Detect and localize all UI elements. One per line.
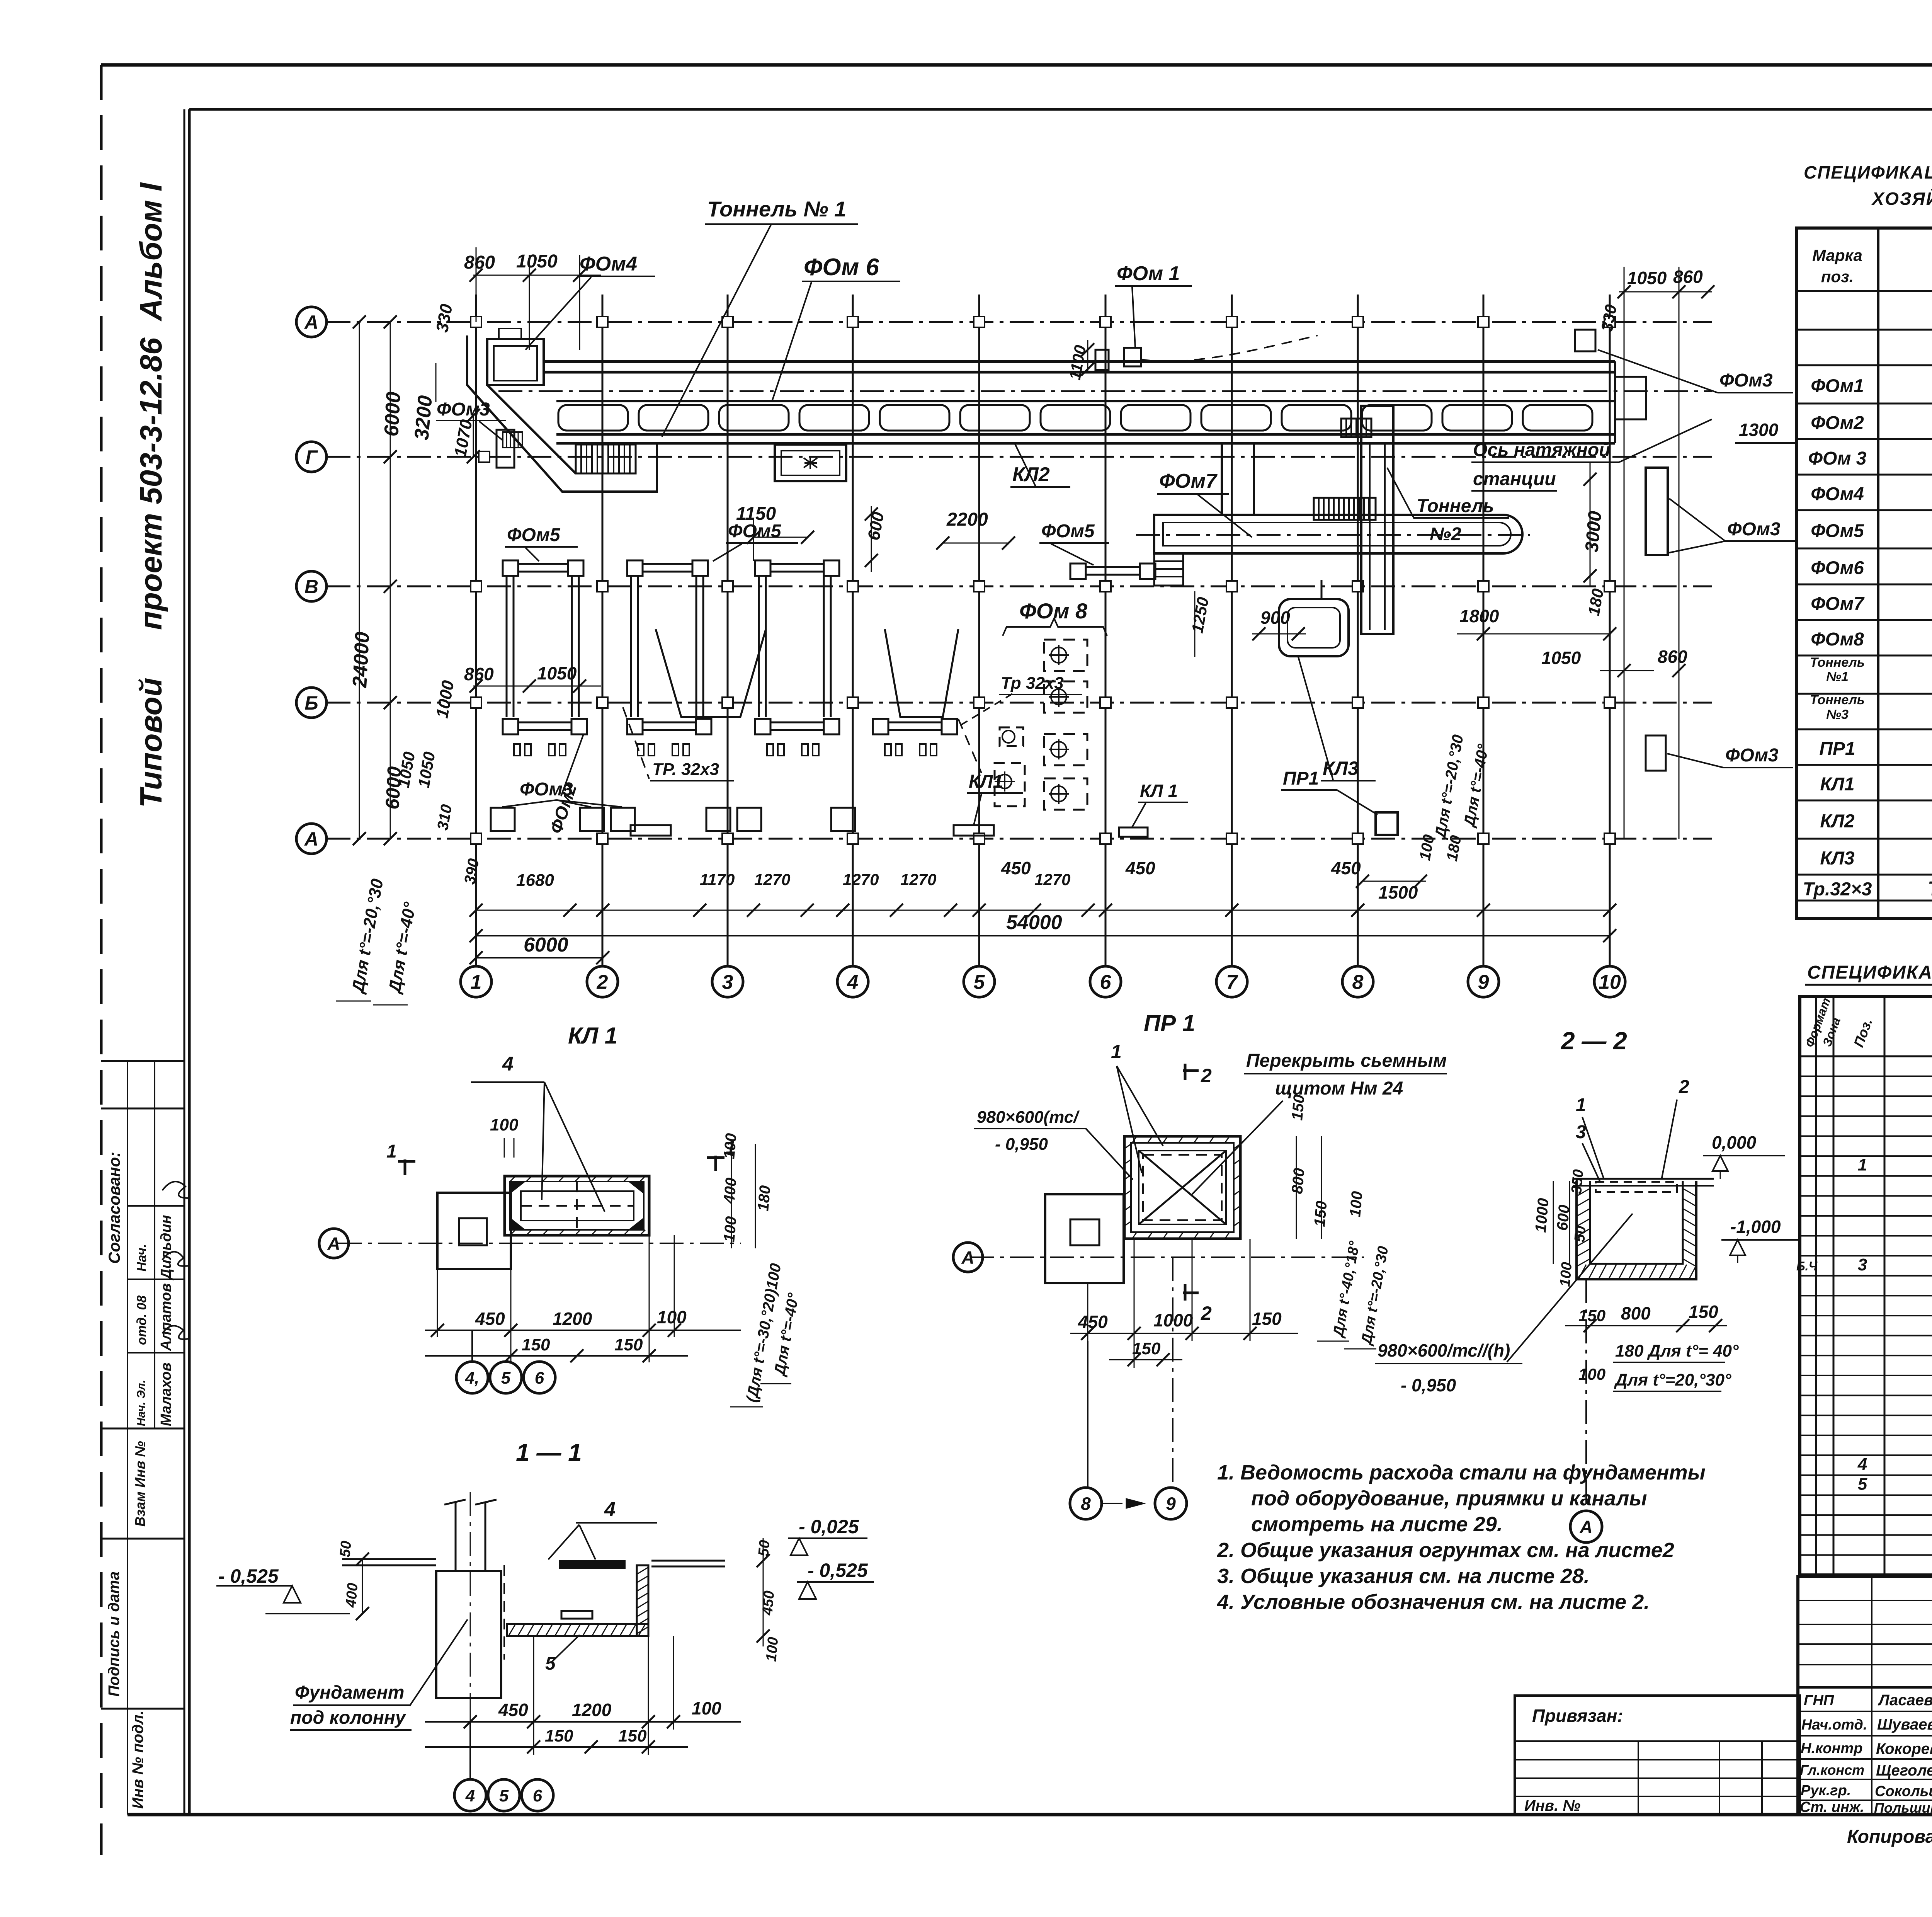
- svg-text:ФОм3: ФОм3: [1725, 745, 1779, 766]
- svg-text:8: 8: [1081, 1494, 1091, 1514]
- bottom dim chain: [476, 910, 1610, 911]
- 2-2 bottom dims: [1565, 1325, 1727, 1326]
- foundation ФОм4 block: [487, 339, 544, 385]
- 1-1 dashed edge: [503, 1565, 505, 1660]
- svg-text:1270: 1270: [843, 870, 879, 889]
- svg-text:Гл.конст: Гл.конст: [1800, 1762, 1864, 1778]
- svg-text:ТУ МПХ 4251-51: ТУ МПХ 4251-51: [1928, 878, 1932, 900]
- svg-text:ФОм7: ФОм7: [1811, 594, 1865, 614]
- svg-text:1000: 1000: [1532, 1197, 1552, 1233]
- svg-text:2200: 2200: [946, 509, 988, 530]
- svg-text:100: 100: [1578, 1365, 1605, 1383]
- foundation ФОм1 small rects: [1095, 350, 1109, 370]
- svg-text:4: 4: [847, 971, 859, 994]
- foundation ФОм3 right tall: [1646, 468, 1668, 555]
- table 2 row lines: [1800, 1076, 1932, 1077]
- svg-text:860: 860: [464, 252, 495, 273]
- svg-text:3. Общие указания см. на: 3. Общие указания см. на листе 28.: [1217, 1565, 1590, 1588]
- svg-text:Нач. Эл.: Нач. Эл.: [135, 1380, 148, 1426]
- 1-1 foundation under column: [436, 1571, 501, 1698]
- svg-text:ФОм 6: ФОм 6: [804, 254, 879, 281]
- svg-text:Для t°=20,°30°: Для t°=20,°30°: [1614, 1371, 1731, 1389]
- 1-1 channel bottom slab: [507, 1624, 648, 1636]
- svg-text:ФОм3: ФОм3: [1719, 370, 1773, 391]
- svg-text:- 0,950: - 0,950: [995, 1135, 1048, 1154]
- svg-text:ПР1: ПР1: [1283, 768, 1319, 789]
- svg-text:Нач.: Нач.: [134, 1244, 149, 1272]
- svg-text:1: 1: [1576, 1095, 1586, 1115]
- svg-text:450: 450: [1125, 858, 1155, 878]
- column axis circles 1-10: [461, 966, 492, 997]
- svg-text:Типовой: Типовой: [134, 678, 168, 808]
- table 1 row lines: [1796, 329, 1932, 331]
- svg-text:- 0,525: - 0,525: [218, 1565, 279, 1587]
- stamp rows for names: [128, 1205, 184, 1207]
- svg-text:КЛ 1: КЛ 1: [1140, 781, 1178, 801]
- svg-text:Тр.32×3: Тр.32×3: [1803, 879, 1872, 900]
- foundation group row Б no.3: [755, 719, 770, 734]
- svg-text:ФОм8: ФОм8: [1811, 629, 1864, 650]
- svg-text:4: 4: [502, 1053, 514, 1075]
- svg-text:КЛ3: КЛ3: [1820, 848, 1854, 869]
- svg-text:54000: 54000: [1006, 911, 1062, 934]
- dim 6000 bay line: [476, 957, 603, 958]
- svg-text:450: 450: [498, 1700, 528, 1720]
- svg-text:4: 4: [465, 1786, 475, 1805]
- svg-text:50: 50: [755, 1539, 773, 1557]
- svg-text:Привязан:: Привязан:: [1532, 1706, 1623, 1726]
- tunnel end wall right: [1614, 361, 1616, 443]
- svg-text:3000: 3000: [1582, 510, 1605, 553]
- svg-text:860: 860: [1673, 267, 1703, 287]
- svg-text:Алпатов: Алпатов: [158, 1283, 174, 1351]
- ПР1 bottom dims: [1070, 1333, 1298, 1334]
- svg-text:Ось натяжной: Ось натяжной: [1473, 440, 1610, 460]
- table 2 column lines: [1815, 996, 1817, 1575]
- svg-text:150: 150: [1252, 1309, 1282, 1329]
- svg-text:ФОм5: ФОм5: [507, 525, 561, 545]
- svg-text:860: 860: [1658, 647, 1687, 667]
- КЛ1 corner wedges: [510, 1182, 525, 1193]
- svg-text:-1,000: -1,000: [1730, 1217, 1781, 1237]
- ПР1 right dims: [1296, 1136, 1297, 1239]
- svg-text:Тоннель: Тоннель: [1810, 655, 1865, 670]
- horizontal axis lines А Г В Б А: [327, 321, 1712, 323]
- svg-text:450: 450: [475, 1309, 505, 1329]
- svg-text:- 0,525: - 0,525: [808, 1559, 868, 1581]
- foundation ФОм3 bottom row rects: [491, 808, 515, 831]
- svg-text:поз.: поз.: [1821, 267, 1854, 286]
- svg-text:отд. 08: отд. 08: [134, 1296, 149, 1345]
- svg-text:А: А: [961, 1248, 974, 1268]
- svg-text:ФОм 8: ФОм 8: [1019, 599, 1088, 623]
- svg-text:Тоннель: Тоннель: [1810, 693, 1865, 707]
- svg-text:100: 100: [692, 1698, 721, 1718]
- svg-text:ХОЗЯЙСТВА И ФУНДАМЕНТОВ П: ХОЗЯЙСТВА И ФУНДАМЕНТОВ ПОД ОБОРУДОВАНИЕ: [1871, 189, 1932, 209]
- svg-text:450: 450: [1331, 858, 1361, 878]
- svg-text:1: 1: [1858, 1156, 1867, 1175]
- svg-text:6: 6: [1100, 971, 1112, 994]
- svg-text:ФОм3: ФОм3: [437, 399, 490, 420]
- svg-text:980×600(тс/: 980×600(тс/: [977, 1108, 1080, 1127]
- ФОм8 small dashed squares left: [1000, 727, 1023, 746]
- svg-text:24000: 24000: [349, 631, 374, 689]
- channel КЛ1 bar no.2: [954, 825, 994, 836]
- 1-1 axis circles 4 5 6: [469, 1722, 471, 1780]
- sheet left outer border: [100, 65, 103, 1855]
- svg-text:ФОм4: ФОм4: [580, 253, 637, 275]
- svg-text:Малахов: Малахов: [158, 1362, 174, 1426]
- КЛ1 channel plan: [505, 1176, 649, 1235]
- svg-text:450: 450: [759, 1590, 777, 1616]
- svg-text:2: 2: [1201, 1065, 1212, 1086]
- ПР1 pit diagonals: [1139, 1151, 1226, 1224]
- table 1 header row line: [1796, 290, 1932, 292]
- svg-text:6: 6: [535, 1369, 544, 1388]
- svg-text:6: 6: [533, 1786, 543, 1805]
- svg-text:5: 5: [499, 1786, 509, 1805]
- svg-text:3200: 3200: [410, 395, 437, 441]
- svg-text:Инв № подл.: Инв № подл.: [129, 1710, 146, 1809]
- svg-text:ФОм3: ФОм3: [1727, 519, 1781, 540]
- svg-text:КЛ1: КЛ1: [1820, 774, 1854, 795]
- svg-text:1050: 1050: [516, 251, 558, 272]
- table 2 header line: [1800, 1056, 1932, 1057]
- svg-text:КЛ 1: КЛ 1: [568, 1023, 617, 1049]
- svg-text:КЛ1: КЛ1: [969, 771, 1003, 792]
- foundation ФОм8 dashed squares: [1044, 640, 1087, 671]
- svg-text:ФОм5: ФОм5: [1041, 521, 1095, 541]
- svg-text:100: 100: [1557, 1262, 1575, 1287]
- svg-text:Шуваев: Шуваев: [1877, 1716, 1932, 1733]
- duct trapezoid no.2: [885, 629, 958, 717]
- svg-text:5: 5: [501, 1369, 511, 1388]
- svg-text:Согласовано:: Согласовано:: [105, 1152, 123, 1264]
- svg-text:6000: 6000: [380, 391, 405, 437]
- svg-text:1. Ведомость расхода стали н: 1. Ведомость расхода стали на фундаменты: [1217, 1461, 1706, 1484]
- svg-text:1270: 1270: [900, 870, 936, 889]
- svg-text:Фундамент: Фундамент: [295, 1682, 404, 1703]
- svg-text:Копировал:: Копировал:: [1847, 1827, 1932, 1847]
- 1-1 floor slab left: [342, 1558, 436, 1560]
- svg-text:Б.Ч: Б.Ч: [1796, 1259, 1818, 1273]
- КЛ1 axis А: [338, 1243, 741, 1244]
- svg-text:5: 5: [1858, 1475, 1867, 1494]
- svg-text:0,000: 0,000: [1712, 1132, 1757, 1153]
- tunnel entrance outer wall: [467, 335, 657, 492]
- stamp signatures: [162, 1182, 189, 1198]
- svg-text:ФОм7: ФОм7: [1159, 470, 1218, 492]
- svg-text:А: А: [304, 312, 318, 333]
- svg-text:СПЕЦИФИКАЦИЯ К СХЕМЕ РАСПО: СПЕЦИФИКАЦИЯ К СХЕМЕ РАСПОЛОЖЕНИЯ ЭЛЕМЕН…: [1804, 162, 1932, 182]
- svg-text:100: 100: [490, 1115, 519, 1134]
- svg-text:900: 900: [1260, 608, 1290, 628]
- svg-text:6000: 6000: [524, 934, 568, 956]
- svg-text:Б: Б: [304, 692, 318, 714]
- svg-text:Инв. №: Инв. №: [1524, 1797, 1580, 1814]
- 2-2 section walls: [1577, 1181, 1696, 1279]
- legs from row В groups: [506, 576, 508, 717]
- 2-2 cover slab: [1573, 1178, 1714, 1180]
- КЛ1 column foundation: [437, 1193, 511, 1269]
- tunnel end block: [1615, 377, 1646, 419]
- svg-text:7: 7: [1226, 971, 1238, 994]
- svg-text:4,: 4,: [465, 1369, 480, 1388]
- svg-text:ФОм 3: ФОм 3: [1808, 448, 1867, 469]
- svg-text:ТР. 32х3: ТР. 32х3: [652, 760, 719, 779]
- svg-text:1200: 1200: [553, 1309, 592, 1329]
- svg-text:под оборудование, приямки и: под оборудование, приямки и каналы: [1251, 1487, 1647, 1510]
- svg-text:1 — 1: 1 — 1: [516, 1439, 582, 1466]
- 1-1 column: [455, 1502, 457, 1571]
- svg-text:1680: 1680: [516, 871, 554, 890]
- 1-1 cover plate 4: [560, 1561, 625, 1568]
- svg-text:9: 9: [1478, 971, 1489, 994]
- 1-1 channel right wall: [637, 1565, 648, 1636]
- svg-text:4: 4: [1857, 1455, 1867, 1474]
- svg-text:Подпись и дата: Подпись и дата: [105, 1571, 122, 1697]
- svg-text:Тр 32х3: Тр 32х3: [1001, 674, 1064, 693]
- tunnel entrance inner wall: [487, 385, 576, 473]
- svg-text:ФОм5: ФОм5: [1811, 521, 1864, 541]
- svg-text:1170: 1170: [700, 870, 735, 889]
- right dim extension lines: [1624, 267, 1625, 839]
- title block upper rows: [1798, 1600, 1932, 1601]
- svg-text:800: 800: [1621, 1303, 1651, 1323]
- channel КЛ1 bar no.1: [631, 825, 671, 836]
- 2-2 left dims: [1553, 1181, 1554, 1264]
- svg-text:1150: 1150: [736, 504, 776, 524]
- svg-text:А: А: [1579, 1517, 1592, 1537]
- svg-text:1: 1: [386, 1141, 397, 1162]
- svg-text:400: 400: [343, 1582, 361, 1609]
- foundation ФОм5 group row В no.2: [627, 560, 643, 576]
- svg-text:450: 450: [1001, 858, 1031, 878]
- foundation ФОм3 right top: [1575, 330, 1595, 351]
- title block frame: [1798, 1577, 1932, 1815]
- svg-text:1270: 1270: [754, 870, 790, 889]
- svg-text:- 0,950: - 0,950: [1401, 1375, 1456, 1395]
- tunnel slot band top: [556, 400, 1615, 402]
- frame left border: [188, 109, 191, 1815]
- svg-text:980×600/тс//(h): 980×600/тс//(h): [1378, 1340, 1510, 1360]
- svg-text:5: 5: [545, 1653, 556, 1674]
- svg-text:1300: 1300: [1739, 420, 1779, 440]
- svg-text:150: 150: [545, 1726, 573, 1745]
- svg-text:КЛ2: КЛ2: [1820, 811, 1854, 832]
- ФОм8 label brace: [1003, 618, 1107, 636]
- КЛ3 stub: [1321, 580, 1323, 599]
- svg-text:10: 10: [1599, 971, 1621, 994]
- ПР1 axis circles 8 9: [1087, 1341, 1088, 1487]
- table 1 column lines: [1877, 228, 1879, 918]
- svg-text:Щеголев: Щеголев: [1876, 1762, 1932, 1779]
- title block left grid verticals: [1871, 1577, 1872, 1815]
- svg-text:- 0,025: - 0,025: [799, 1516, 859, 1537]
- svg-text:Тоннель № 1: Тоннель № 1: [707, 197, 846, 221]
- КЛ1 dim chain: [425, 1330, 741, 1331]
- frame bottom border: [128, 1813, 1932, 1817]
- 2-2 axis circle А: [1585, 1279, 1587, 1510]
- channel КЛ3 body: [1279, 599, 1349, 656]
- svg-text:ФОм6: ФОм6: [1811, 558, 1864, 579]
- svg-text:150: 150: [618, 1726, 647, 1745]
- svg-text:ПР 1: ПР 1: [1144, 1010, 1195, 1036]
- entrance stairs: [576, 444, 636, 473]
- svg-text:А: А: [327, 1234, 340, 1254]
- svg-text:3: 3: [1858, 1255, 1867, 1274]
- tunnel N2 vertical duct: [1361, 406, 1393, 634]
- channel КЛ1 bar no.3: [1119, 827, 1148, 837]
- svg-text:2 — 2: 2 — 2: [1561, 1027, 1627, 1055]
- tunnel axis line: [498, 390, 1712, 392]
- duct trapezoid no.1: [656, 629, 766, 717]
- svg-text:3: 3: [1576, 1122, 1586, 1142]
- table 1 frame: [1796, 228, 1932, 918]
- inspection box with mark: [775, 444, 846, 481]
- svg-text:150: 150: [1132, 1339, 1161, 1358]
- svg-text:150: 150: [614, 1335, 643, 1354]
- svg-text:800: 800: [1289, 1167, 1308, 1194]
- svg-text:2: 2: [1679, 1077, 1689, 1097]
- svg-text:№1: №1: [1826, 669, 1849, 684]
- svg-text:В: В: [304, 576, 318, 598]
- 2-2 wall hatch: [1577, 1188, 1590, 1196]
- tunnel slot band bottom: [556, 433, 1615, 436]
- svg-text:ГНП: ГНП: [1804, 1692, 1834, 1709]
- svg-text:Тоннель: Тоннель: [1417, 496, 1494, 516]
- ПР1 axis А: [970, 1256, 1364, 1258]
- frame top inner line: [189, 108, 1932, 111]
- svg-text:2. Общие указания огрунтах с: 2. Общие указания огрунтах см. на листе2: [1217, 1539, 1674, 1562]
- foundation ФОм3 right small: [1646, 735, 1666, 771]
- ФОм7 stairs zebra: [1314, 498, 1376, 520]
- svg-text:100: 100: [721, 1216, 740, 1243]
- anchor pairs below row Б: [514, 744, 520, 756]
- svg-text:100: 100: [763, 1636, 781, 1662]
- pipe Тр32х3 dashed diagonal: [623, 707, 649, 779]
- vertical duct to ФОм7: [1221, 443, 1223, 515]
- svg-text:100: 100: [1347, 1190, 1366, 1217]
- foundation ФОм5 group row В no.4: [1070, 564, 1086, 579]
- svg-text:Альбом I: Альбом I: [134, 182, 168, 322]
- svg-text:4. Условные обозначения см.: 4. Условные обозначения см. на листе 2.: [1217, 1590, 1650, 1614]
- svg-text:Перекрыть сьемным: Перекрыть сьемным: [1246, 1050, 1447, 1071]
- axis circles left: [296, 307, 327, 337]
- svg-text:400: 400: [721, 1177, 740, 1204]
- svg-text:Дильдин: Дильдин: [158, 1215, 174, 1280]
- svg-text:Кокорев: Кокорев: [1876, 1740, 1932, 1757]
- svg-text:1500: 1500: [1378, 882, 1418, 902]
- svg-text:под колонну: под колонну: [290, 1708, 406, 1728]
- svg-text:8: 8: [1352, 971, 1364, 994]
- svg-text:350: 350: [1568, 1169, 1587, 1195]
- svg-text:проект 503-3-12.86: проект 503-3-12.86: [134, 337, 168, 630]
- ФОм1 dashed tie line: [1141, 335, 1318, 361]
- svg-text:Марка: Марка: [1812, 246, 1862, 264]
- svg-text:150: 150: [522, 1335, 550, 1354]
- foundation ФОм5 group row В no.3: [755, 560, 770, 576]
- sheet top edge line: [101, 63, 1932, 67]
- svg-text:А: А: [304, 828, 318, 850]
- svg-text:150: 150: [1578, 1306, 1605, 1325]
- svg-text:600: 600: [1554, 1204, 1573, 1231]
- svg-text:Польшикова: Польшикова: [1874, 1800, 1932, 1816]
- svg-text:ПР1: ПР1: [1819, 739, 1855, 759]
- svg-text:100: 100: [657, 1307, 687, 1327]
- КЛ1 axis circles 4 5 6: [471, 1330, 473, 1362]
- tunnel N1 top walls: [543, 360, 1615, 363]
- svg-text:Рук.гр.: Рук.гр.: [1801, 1783, 1851, 1799]
- svg-text:Н.контр: Н.контр: [1801, 1740, 1862, 1757]
- svg-text:2: 2: [597, 971, 608, 994]
- table 2 frame: [1800, 996, 1932, 1575]
- pit ПР1 square in plan: [1376, 812, 1398, 835]
- svg-text:1050: 1050: [1627, 268, 1667, 288]
- svg-text:Сокольцов: Сокольцов: [1875, 1783, 1932, 1800]
- svg-text:100: 100: [721, 1132, 740, 1159]
- svg-text:3: 3: [722, 971, 733, 994]
- КЛ1 section marks 1-1: [404, 1159, 406, 1175]
- title block name rows: [1798, 1711, 1932, 1712]
- svg-text:1: 1: [1111, 1041, 1122, 1062]
- svg-text:860: 860: [464, 664, 494, 684]
- svg-text:Нач.отд.: Нач.отд.: [1801, 1717, 1867, 1733]
- svg-text:180: 180: [755, 1185, 774, 1212]
- 1-1 support plate 5: [561, 1611, 592, 1619]
- svg-text:5: 5: [974, 971, 985, 994]
- overall dim line 54000: [476, 935, 1610, 936]
- foundation group row Б no.4: [873, 719, 888, 734]
- svg-text:Взам Инв №: Взам Инв №: [132, 1441, 148, 1527]
- 1-1 column centerline: [470, 1492, 471, 1728]
- foundation group row Б no.1: [503, 719, 518, 734]
- left margin stamp column lines: [101, 1060, 184, 1062]
- svg-text:50: 50: [337, 1540, 355, 1558]
- svg-text:Г: Г: [306, 446, 318, 468]
- anchor stamp block Привязан: [1515, 1696, 1800, 1815]
- axis node squares: [471, 317, 481, 327]
- ПР1 column foundation: [1045, 1194, 1124, 1283]
- ПР1 section marks 2: [1183, 1069, 1199, 1072]
- КЛ1 wall hatch: [510, 1176, 515, 1182]
- 1-1 dim chain: [425, 1721, 741, 1723]
- ФОм7 axis: [1136, 534, 1530, 536]
- svg-text:Ласаев: Ласаев: [1878, 1692, 1932, 1709]
- svg-text:ФОм 1: ФОм 1: [1117, 262, 1180, 285]
- svg-text:50: 50: [1571, 1225, 1589, 1243]
- foundation ФОм5 group row В no.1: [503, 560, 518, 576]
- svg-text:КЛ2: КЛ2: [1012, 463, 1050, 486]
- foundation ФОм3 left rect: [497, 430, 514, 468]
- 1-1 slab right: [651, 1560, 725, 1562]
- svg-text:9: 9: [1166, 1494, 1176, 1514]
- svg-text:ФОм1: ФОм1: [1811, 376, 1864, 397]
- svg-text:150: 150: [1689, 1302, 1718, 1322]
- svg-text:станции: станции: [1473, 469, 1556, 489]
- svg-text:ФОм4: ФОм4: [1811, 484, 1864, 504]
- svg-text:№3: №3: [1826, 707, 1849, 722]
- foundation ФОм7 long bar: [1154, 515, 1522, 553]
- foundation group row Б no.2: [627, 719, 643, 734]
- svg-text:СПЕЦИФИКАЦИЯ ЭЛЕМЕНТОВ НА: СПЕЦИФИКАЦИЯ ЭЛЕМЕНТОВ НА КЛ1 И ПР1.: [1807, 962, 1932, 983]
- ФОм7 left ladder: [1154, 553, 1183, 586]
- ПР1 wall hatch: [1132, 1136, 1137, 1143]
- svg-text:4: 4: [604, 1498, 616, 1521]
- upper small ladder: [503, 432, 522, 448]
- svg-text:150: 150: [1311, 1200, 1330, 1227]
- svg-text:1800: 1800: [1459, 606, 1499, 626]
